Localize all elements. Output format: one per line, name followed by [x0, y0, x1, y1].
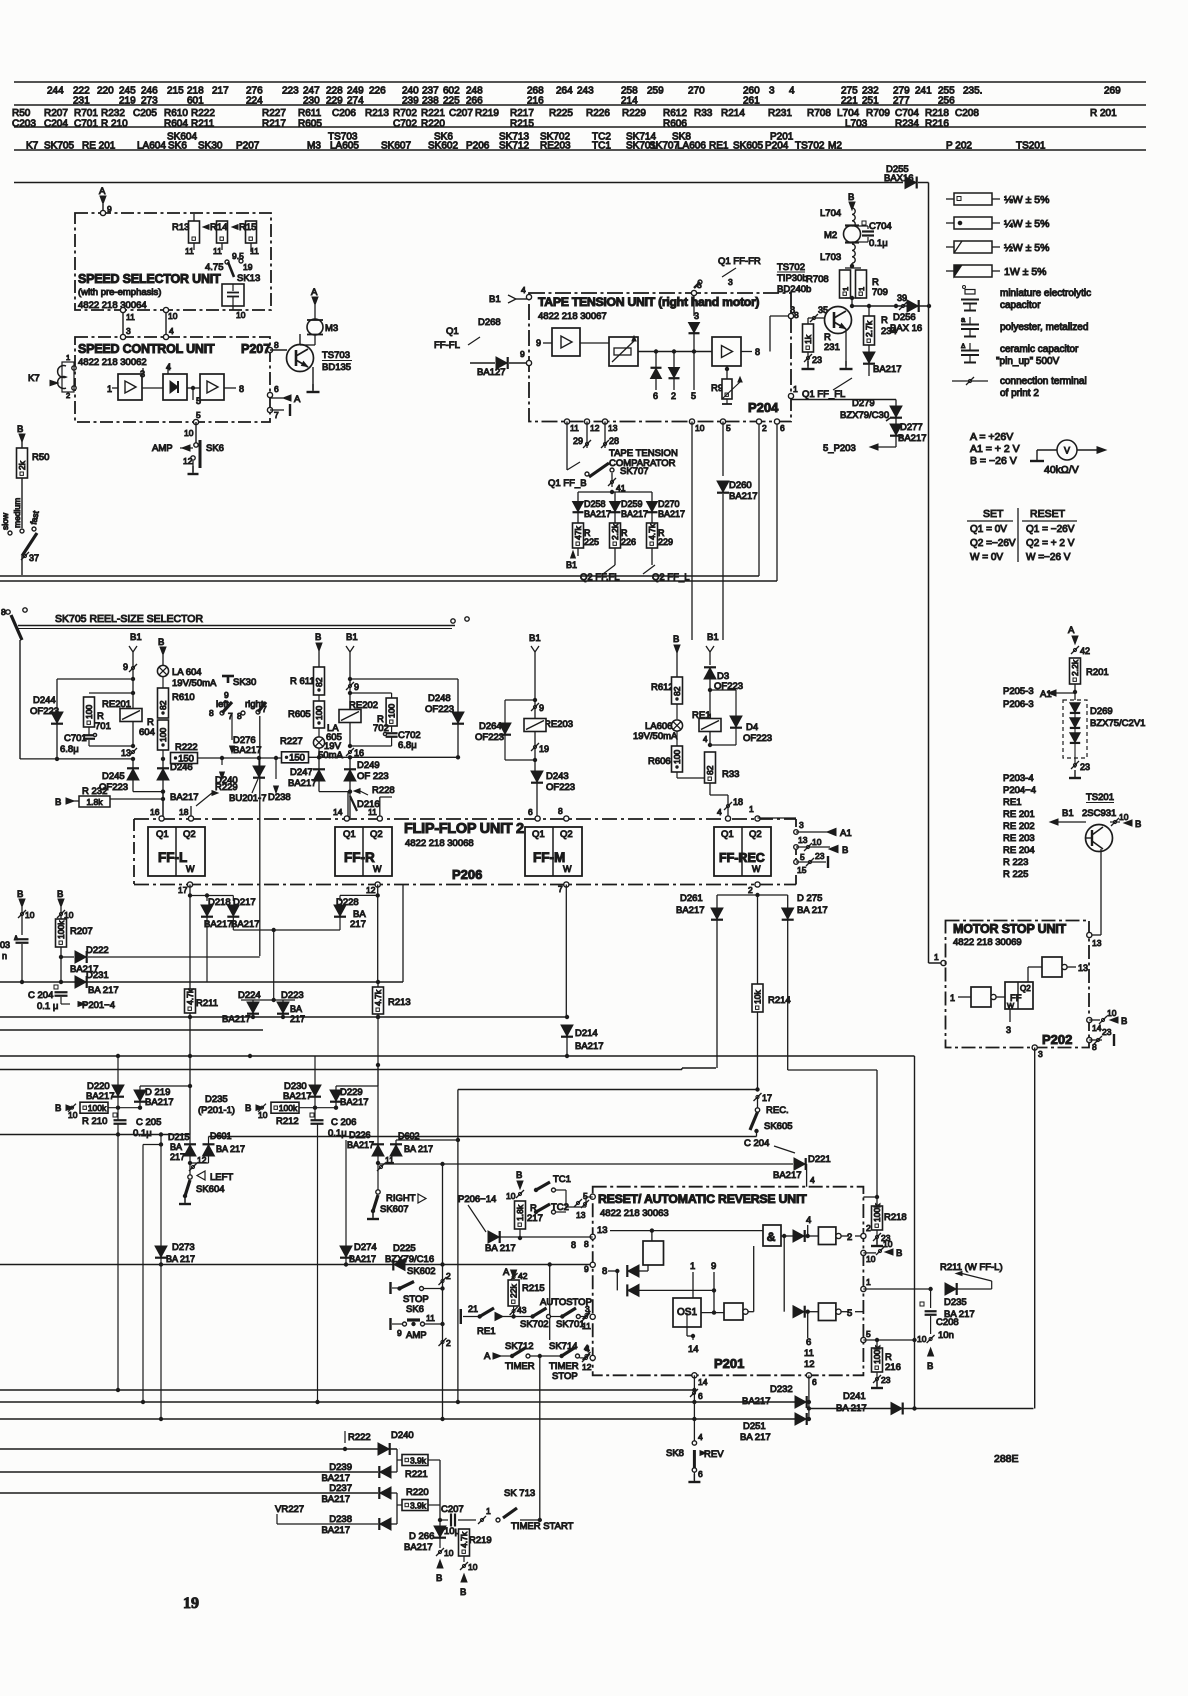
svg-text:C207: C207	[449, 108, 473, 119]
wire SK8 column	[693, 1375, 695, 1441]
svg-text:TS702: TS702	[777, 262, 805, 273]
wire buffer to AND	[748, 1311, 754, 1313]
wire line 1030	[0, 1029, 263, 1031]
svg-text:TC1: TC1	[592, 141, 611, 152]
svg-text:Q1 = −26V: Q1 = −26V	[1026, 524, 1075, 535]
diode D270 BA217 + resistor R229 4.7k	[651, 492, 653, 501]
svg-text:FF-REC: FF-REC	[719, 851, 765, 865]
svg-text:D251: D251	[743, 1421, 766, 1432]
svg-text:RE1: RE1	[709, 141, 729, 152]
svg-text:W = 0V: W = 0V	[970, 552, 1003, 563]
svg-text:R228: R228	[372, 785, 395, 796]
svg-text:SK 713: SK 713	[504, 1488, 535, 1499]
resistor R215 22k	[508, 1280, 519, 1306]
svg-text:21: 21	[468, 1304, 478, 1314]
svg-text:W: W	[373, 864, 382, 874]
svg-text:BA217: BA217	[233, 745, 262, 756]
svg-text:BA217: BA217	[742, 1396, 771, 1407]
svg-text:BA217: BA217	[86, 1091, 115, 1102]
box FF-L	[148, 827, 205, 876]
svg-text:23: 23	[881, 1233, 891, 1243]
diode D3 OF223	[704, 668, 716, 679]
svg-text:4822 218 30064: 4822 218 30064	[78, 300, 147, 311]
svg-text:SK707: SK707	[620, 466, 649, 477]
svg-text:6: 6	[698, 1391, 703, 1401]
svg-text:217: 217	[212, 86, 229, 97]
svg-text:Q2: Q2	[749, 829, 762, 840]
svg-text:P203-4: P203-4	[1003, 773, 1034, 784]
svg-text:BA217: BA217	[231, 919, 260, 930]
svg-text:R702: R702	[393, 108, 417, 119]
svg-text:R222: R222	[191, 108, 215, 119]
svg-text:0.1μ: 0.1μ	[328, 1128, 347, 1139]
svg-text:LA 604: LA 604	[172, 667, 202, 678]
diode D235 BA217	[945, 1283, 956, 1295]
svg-text:AMP: AMP	[406, 1330, 427, 1341]
wire 16 node	[346, 748, 354, 756]
pin 4/12 left edge	[590, 1355, 595, 1360]
svg-text:P205-3: P205-3	[1003, 686, 1034, 697]
svg-text:10: 10	[25, 910, 35, 920]
svg-text:4: 4	[521, 285, 526, 295]
svg-text:W =−26 V: W =−26 V	[1026, 552, 1071, 563]
svg-text:SK705 REEL-SIZE SELECTOR: SK705 REEL-SIZE SELECTOR	[55, 613, 203, 625]
svg-text:100k: 100k	[56, 920, 66, 939]
svg-text:D237: D237	[329, 1483, 352, 1494]
svg-text:medium: medium	[12, 498, 22, 528]
svg-text:D270: D270	[658, 499, 680, 509]
svg-text:15: 15	[797, 865, 807, 875]
svg-text:10: 10	[917, 1334, 927, 1344]
svg-text:D4: D4	[746, 722, 758, 733]
svg-text:C208: C208	[955, 108, 979, 119]
svg-text:"pin_up" 500V: "pin_up" 500V	[996, 356, 1060, 367]
svg-text:P201: P201	[714, 1356, 744, 1371]
svg-text:0.1 μ: 0.1 μ	[37, 1001, 58, 1012]
svg-text:82: 82	[158, 700, 168, 710]
svg-text:241: 241	[915, 86, 932, 97]
wire	[21, 556, 23, 575]
resistor R221 3.9k	[402, 1455, 428, 1466]
svg-text:RE 204: RE 204	[1003, 845, 1035, 856]
svg-text:235.: 235.	[963, 86, 982, 97]
svg-text:OF223: OF223	[546, 782, 575, 793]
pin 8 left edge	[590, 1234, 595, 1239]
svg-text:259: 259	[647, 86, 664, 97]
svg-text:Q1 FF_B: Q1 FF_B	[548, 478, 587, 489]
wire R213 column down	[377, 1016, 379, 1018]
svg-text:B = −26 V: B = −26 V	[970, 455, 1017, 467]
pin 14 bottom edge P201	[692, 1373, 697, 1378]
svg-text:D238: D238	[268, 792, 291, 803]
svg-text:18: 18	[733, 797, 743, 807]
svg-text:13: 13	[1078, 963, 1088, 973]
wire D221 line	[378, 1163, 793, 1165]
svg-text:29: 29	[573, 436, 583, 446]
svg-text:SPEED SELECTOR UNIT: SPEED SELECTOR UNIT	[78, 272, 221, 286]
pin 14 right edge motor stop	[1087, 1017, 1092, 1022]
svg-text:Q1: Q1	[446, 326, 459, 337]
FF-R bottom pin 12	[375, 882, 380, 887]
capacitor C702 6.8u	[391, 726, 393, 732]
wire top bus A	[14, 182, 903, 184]
svg-text:B: B	[17, 889, 23, 900]
svg-text:8: 8	[790, 305, 795, 315]
capacitor C701 6.8u	[88, 727, 90, 735]
svg-text:R612: R612	[651, 682, 674, 693]
svg-text:A1 = + 2 V: A1 = + 2 V	[970, 443, 1020, 455]
svg-text:SK8: SK8	[666, 1448, 684, 1459]
svg-text:R214: R214	[721, 108, 745, 119]
svg-text:C 204: C 204	[744, 1138, 769, 1149]
diode D243 OF223	[531, 771, 543, 782]
svg-text:SK705: SK705	[44, 141, 74, 152]
svg-text:23: 23	[1080, 762, 1090, 772]
svg-text:C206: C206	[332, 108, 356, 119]
svg-text:BA217: BA217	[621, 509, 648, 519]
svg-text:1: 1	[749, 804, 754, 814]
wire FF-L pin17 node	[189, 885, 191, 896]
svg-text:R214: R214	[768, 995, 791, 1006]
svg-text:604: 604	[139, 727, 155, 738]
svg-text:217: 217	[350, 919, 366, 930]
svg-text:VR227: VR227	[275, 1504, 304, 1515]
svg-text:R: R	[881, 315, 888, 326]
svg-text:STOP: STOP	[552, 1371, 578, 1382]
svg-text:Q2: Q2	[560, 829, 573, 840]
svg-text:4: 4	[703, 735, 708, 744]
FF-REC top pins	[725, 816, 730, 821]
svg-text:R234: R234	[895, 119, 919, 130]
svg-text:82: 82	[705, 765, 715, 775]
wire D222 riser	[259, 716, 261, 957]
svg-text:R227: R227	[280, 736, 303, 747]
wire links between speed units	[122, 310, 124, 337]
wire row 1390	[0, 1389, 694, 1391]
svg-text:42: 42	[1080, 646, 1090, 656]
svg-text:6: 6	[528, 807, 533, 817]
wire 1056 to x915	[914, 1056, 916, 1409]
svg-text:10: 10	[444, 1548, 454, 1558]
switch SK605 REC	[755, 1108, 759, 1112]
svg-text:D260: D260	[729, 480, 752, 491]
svg-text:D259: D259	[621, 499, 643, 509]
svg-text:R201: R201	[1086, 667, 1109, 678]
svg-text:23: 23	[1102, 1027, 1112, 1037]
wire row 1408 D241	[809, 1408, 1034, 1410]
resistor R211 4.7k	[185, 989, 196, 1013]
svg-text:Q2 FF_L: Q2 FF_L	[652, 572, 690, 583]
block out buffer 2	[818, 1303, 836, 1321]
svg-text:R 210: R 210	[82, 1116, 107, 1127]
svg-text:B: B	[57, 889, 63, 900]
svg-text:OS1: OS1	[677, 1307, 697, 1318]
svg-text:R33: R33	[694, 108, 713, 119]
svg-text:R33: R33	[722, 769, 739, 780]
svg-text:11: 11	[126, 312, 135, 322]
svg-text:150: 150	[289, 753, 305, 764]
svg-text:D222: D222	[86, 945, 109, 956]
svg-text:BA: BA	[290, 1004, 302, 1014]
svg-text:39: 39	[897, 293, 907, 303]
svg-text:6: 6	[780, 423, 785, 433]
svg-text:(P201-1): (P201-1)	[198, 1105, 235, 1116]
svg-text:D 275: D 275	[797, 893, 822, 904]
svg-text:RE203: RE203	[544, 719, 573, 730]
bus 1069	[0, 1069, 682, 1071]
svg-text:MOTOR STOP UNIT: MOTOR STOP UNIT	[953, 922, 1067, 936]
diode reset d2	[616, 1271, 618, 1290]
svg-text:2: 2	[748, 885, 753, 895]
svg-text:269: 269	[1104, 86, 1121, 97]
resistor R701 100	[131, 691, 135, 695]
svg-text:Q2: Q2	[183, 829, 196, 840]
pin 1 right edge P201	[861, 1286, 866, 1291]
motor M2	[844, 226, 861, 243]
svg-text:P 202: P 202	[946, 141, 972, 152]
svg-text:W: W	[563, 864, 572, 874]
svg-text:4: 4	[789, 86, 795, 97]
svg-text:215: 215	[167, 86, 184, 97]
svg-text:B: B	[1121, 1016, 1127, 1027]
svg-text:2: 2	[446, 1271, 451, 1281]
diode reset d1	[628, 1265, 639, 1277]
svg-text:D224: D224	[238, 990, 261, 1001]
svg-text:BA 217: BA 217	[797, 905, 828, 916]
wire to D218 D217	[190, 895, 233, 897]
svg-text:P206: P206	[452, 867, 482, 882]
svg-text:P207: P207	[236, 141, 260, 152]
svg-text:R222: R222	[348, 1432, 371, 1443]
svg-text:216: 216	[885, 1362, 901, 1373]
svg-text:SK607: SK607	[380, 1204, 409, 1215]
diode D216 BA217	[488, 1231, 499, 1243]
svg-text:R216: R216	[925, 119, 949, 130]
svg-text:10n: 10n	[938, 1330, 954, 1341]
svg-text:2: 2	[446, 1338, 451, 1348]
pin 5 right edge P201	[861, 1337, 866, 1342]
svg-text:150: 150	[178, 753, 194, 764]
svg-text:3: 3	[126, 326, 131, 336]
svg-text:ceramic capacitor: ceramic capacitor	[1000, 344, 1079, 355]
svg-text:M3: M3	[325, 323, 338, 334]
legend resistor 1/2W	[946, 246, 954, 248]
svg-text:L703: L703	[845, 119, 868, 130]
resistor R13	[189, 221, 200, 243]
label R222 bottom	[344, 1431, 346, 1443]
svg-text:216: 216	[527, 96, 544, 107]
resistor R15	[246, 221, 257, 243]
FF-REC bottom pin 2	[755, 882, 760, 887]
wire right contact down	[259, 716, 261, 956]
svg-text:P204: P204	[748, 400, 779, 415]
svg-text:238: 238	[422, 96, 439, 107]
svg-text:4: 4	[717, 807, 722, 817]
svg-text:SK605: SK605	[733, 141, 763, 152]
svg-text:225: 225	[584, 537, 599, 547]
svg-text:4.75: 4.75	[205, 262, 224, 273]
diode D214 BA217	[561, 1025, 573, 1036]
svg-text:8: 8	[584, 1239, 589, 1249]
wire pin11 down Q1 FF-B	[566, 422, 568, 471]
svg-text:D241: D241	[843, 1391, 866, 1402]
wire pin1 to D235	[863, 1288, 930, 1290]
svg-text:10k: 10k	[753, 990, 763, 1004]
svg-text:11: 11	[804, 1348, 814, 1359]
diode D255	[905, 177, 916, 189]
lamp LA605	[318, 728, 320, 737]
svg-text:6: 6	[812, 1377, 817, 1387]
capacitor C204	[54, 985, 58, 989]
svg-text:R15: R15	[239, 222, 256, 233]
svg-text:8: 8	[239, 384, 244, 394]
svg-text:M2: M2	[828, 141, 842, 152]
svg-text:B: B	[17, 424, 23, 435]
svg-text:RE1: RE1	[1003, 797, 1021, 808]
motor M3	[307, 319, 323, 335]
svg-text:R50: R50	[32, 452, 49, 463]
switch SK6 AMP contact	[407, 1318, 420, 1321]
svg-text:B1: B1	[529, 633, 541, 644]
svg-text:C204: C204	[44, 119, 68, 130]
pin 3 bottom of FF	[1009, 1009, 1011, 1022]
svg-text:5: 5	[691, 391, 696, 401]
svg-text:5: 5	[800, 852, 805, 862]
svg-text:BA217: BA217	[584, 509, 611, 519]
svg-text:W: W	[752, 864, 761, 874]
legend resistor 1/8W	[946, 198, 954, 200]
svg-text:100k: 100k	[279, 1103, 298, 1113]
resistor R702 100	[348, 691, 352, 695]
svg-text:4.7k: 4.7k	[459, 1531, 469, 1548]
resistor R216 100k	[876, 1340, 878, 1348]
svg-text:of print 2: of print 2	[1000, 388, 1039, 399]
svg-text:256: 256	[938, 96, 955, 107]
svg-text:10: 10	[168, 311, 178, 321]
svg-text:601: 601	[187, 96, 204, 107]
svg-text:4.7k: 4.7k	[373, 989, 383, 1006]
svg-text:11: 11	[185, 246, 194, 256]
svg-text:10μ: 10μ	[444, 1526, 460, 1537]
tape tension bottom pins	[564, 419, 569, 424]
diode pin2 tape tension	[673, 352, 675, 368]
svg-text:RE 203: RE 203	[1003, 833, 1035, 844]
wire long line fast to P204 pin6	[0, 580, 777, 582]
svg-text:19: 19	[539, 744, 549, 754]
svg-text:5: 5	[196, 410, 201, 420]
wire slash 1	[478, 1516, 486, 1524]
svg-text:273: 273	[141, 96, 158, 107]
svg-text:230: 230	[303, 96, 320, 107]
svg-text:R221: R221	[405, 1469, 428, 1480]
svg-text:B: B	[436, 1573, 442, 1584]
capacitor C206	[310, 1113, 314, 1117]
svg-text:288E: 288E	[994, 1453, 1019, 1465]
svg-text:LA605: LA605	[330, 141, 359, 152]
svg-text:D231: D231	[86, 970, 109, 981]
svg-text:&: &	[767, 1230, 776, 1244]
svg-text:13: 13	[597, 1225, 608, 1236]
svg-text:8: 8	[237, 711, 242, 721]
bus 1264	[0, 1264, 593, 1266]
svg-text:D277: D277	[900, 422, 923, 433]
svg-text:4822 218 30067: 4822 218 30067	[538, 311, 607, 322]
svg-text:capacitor: capacitor	[1000, 300, 1041, 311]
svg-text:SET: SET	[983, 508, 1004, 520]
svg-text:AUTOSTOP: AUTOSTOP	[540, 1297, 592, 1308]
svg-text:RE 201: RE 201	[82, 141, 116, 152]
svg-text:5: 5	[866, 1329, 871, 1339]
svg-text:R227: R227	[262, 108, 286, 119]
legend resistor 1W	[946, 270, 954, 272]
svg-text:10: 10	[236, 310, 246, 320]
svg-text:12: 12	[804, 1359, 815, 1370]
svg-text:C 206: C 206	[331, 1117, 356, 1128]
svg-text:D240: D240	[391, 1430, 414, 1441]
svg-text:R50: R50	[12, 108, 31, 119]
wire row 1524 D238	[277, 1523, 378, 1525]
svg-text:R 223: R 223	[1003, 857, 1028, 868]
svg-text:BD135: BD135	[322, 362, 351, 373]
svg-text:4: 4	[810, 1175, 815, 1185]
svg-text:9: 9	[711, 1261, 716, 1272]
svg-text:D226: D226	[349, 1130, 371, 1140]
svg-text:43: 43	[517, 1305, 527, 1315]
pin 13 right edge	[1087, 932, 1092, 937]
svg-text:B: B	[55, 1103, 61, 1114]
svg-text:B: B	[158, 637, 164, 648]
wire row 1449	[0, 1448, 397, 1450]
svg-text:A: A	[294, 394, 301, 405]
svg-text:5: 5	[726, 423, 731, 433]
svg-text:RE 201: RE 201	[1003, 809, 1035, 820]
svg-text:BA217: BA217	[222, 1014, 251, 1025]
svg-text:R211 (W FF-L): R211 (W FF-L)	[940, 1262, 1003, 1273]
svg-text:K7: K7	[28, 373, 40, 384]
svg-text:23: 23	[881, 1375, 891, 1385]
svg-text:D274: D274	[354, 1242, 377, 1253]
switch SK705 line	[6, 610, 10, 614]
svg-text:9: 9	[520, 349, 525, 359]
svg-text:R610: R610	[164, 108, 188, 119]
svg-text:M2: M2	[824, 230, 837, 241]
wire D275 to R218	[788, 1069, 877, 1071]
svg-text:R217: R217	[262, 119, 286, 130]
svg-text:R604: R604	[164, 119, 188, 130]
svg-text:Q2 = + 2 V: Q2 = + 2 V	[1026, 538, 1075, 549]
wire pin10 down	[691, 422, 693, 641]
svg-text:D239: D239	[329, 1462, 352, 1473]
svg-text:10: 10	[866, 1254, 876, 1264]
svg-text:B1: B1	[1062, 808, 1074, 819]
svg-text:D261: D261	[680, 893, 703, 904]
svg-text:R606: R606	[663, 119, 687, 130]
bus 1017	[0, 1016, 567, 1018]
diode D261 BA217	[716, 895, 718, 908]
wire D217 bottom	[233, 929, 340, 931]
svg-text:RESET/ AUTOMATIC REVERSE UNI: RESET/ AUTOMATIC REVERSE UNIT	[598, 1192, 807, 1206]
wire FF-R pin12 node	[377, 885, 379, 896]
svg-text:REV: REV	[704, 1449, 724, 1460]
block square reset1	[643, 1241, 664, 1265]
legend miniature electrolytic capacitor	[963, 286, 966, 289]
diode block in speed control	[163, 374, 187, 400]
svg-text:M3: M3	[307, 141, 321, 152]
svg-text:1.8k: 1.8k	[86, 797, 103, 807]
svg-text:3: 3	[1038, 1049, 1043, 1059]
svg-text:BA217: BA217	[170, 792, 199, 803]
wire D273 column lower	[160, 1265, 162, 1420]
